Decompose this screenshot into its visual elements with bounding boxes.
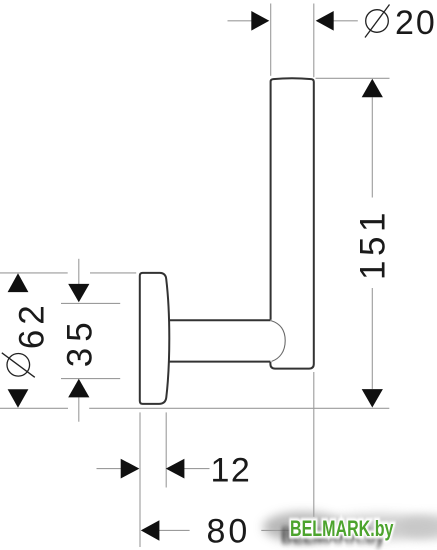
svg-text:151: 151: [354, 208, 393, 280]
extension line 12 right vertical: [165, 412, 167, 487]
dim D20 arrow left: [251, 11, 269, 31]
svg-text:35: 35: [61, 316, 100, 367]
arm end fillet curve: [271, 321, 285, 362]
dim line 35 below bottom arrow: [78, 397, 80, 421]
svg-text:62: 62: [13, 300, 52, 349]
extension line rod-right below: [313, 372, 315, 517]
rod outline: [270, 78, 313, 368]
extension line 151 top: [316, 77, 390, 79]
dim line 151 lower segment: [371, 288, 373, 389]
svg-text:12: 12: [211, 452, 252, 490]
dim 35 arrow down: [68, 284, 89, 302]
svg-text:80: 80: [207, 513, 251, 550]
dim 151 arrow down: [362, 389, 383, 407]
dim 35 arrow up: [68, 379, 89, 398]
dim line 80 right segment: [261, 529, 314, 531]
dim line 12 left tail: [97, 468, 121, 470]
extension line bottom long left part: [0, 407, 68, 409]
extension line 35 top: [61, 302, 120, 304]
dim 12 arrow left: [166, 459, 185, 479]
dim D62 arrow up: [8, 273, 29, 292]
dim 151 arrow up: [362, 79, 383, 98]
watermark badge grey blob: [263, 512, 437, 542]
extension line D62 top right part: [90, 272, 136, 274]
wall plate outline: [140, 273, 170, 404]
extension line rod-right above: [313, 4, 315, 78]
arm top line: [168, 319, 271, 321]
extension line bottom long right part: [89, 407, 389, 409]
extension line 12 left vertical: [139, 412, 141, 547]
dim line 12 right tail: [184, 468, 210, 470]
extension line D62 top left part: [0, 272, 68, 274]
dim line D20 left tail: [228, 20, 253, 22]
diameter symbol for 20: [365, 5, 390, 38]
arm bottom line: [168, 361, 271, 363]
extension line 35 bottom: [61, 378, 120, 380]
dim 80 arrow left: [141, 520, 160, 541]
dim 12 arrow right: [121, 459, 140, 479]
extension line rod-left above: [270, 4, 272, 76]
dim line 35 above top arrow: [78, 259, 80, 284]
dim line 151 upper segment: [371, 97, 373, 197]
diameter symbol for 62: [2, 353, 35, 378]
svg-text:BELMARK.by: BELMARK.by: [290, 518, 394, 542]
dim D20 arrow right: [316, 11, 334, 31]
dim line D20 right tail: [334, 20, 358, 22]
svg-text:20: 20: [395, 4, 437, 42]
dim D62 arrow down: [8, 389, 29, 408]
dim line 80 middle segment: [159, 529, 190, 531]
